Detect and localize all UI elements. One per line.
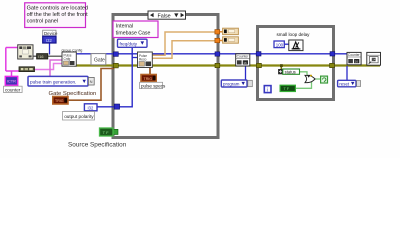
tunnel blue loop left — [256, 52, 261, 56]
wire brown gate spec — [68, 69, 115, 101]
wire blue output polarity run — [97, 48, 132, 107]
wire olive tap to unbundle — [280, 66, 282, 70]
label output polarity — [63, 112, 95, 121]
svg-text:TRIG: TRIG — [144, 77, 153, 81]
indicator tan box A — [223, 28, 239, 34]
wire orange B — [152, 41, 217, 58]
svg-text:T F: T F — [103, 130, 109, 135]
ring constant freq/duty — [118, 39, 148, 47]
vi icon wait ms (metronome) — [289, 40, 303, 51]
svg-text:freq/duty: freq/duty — [120, 41, 138, 46]
svg-text:Internal: Internal — [116, 24, 133, 30]
icon counter config (left DAQ icon) — [18, 45, 33, 59]
tunnel olive loop right — [330, 63, 335, 67]
tunnel blue case left lower — [114, 104, 119, 109]
svg-text:Gate: Gate — [94, 57, 105, 63]
constant Gate string — [91, 54, 106, 65]
svg-text:output polarity: output polarity — [64, 114, 94, 119]
node group config — [62, 48, 83, 66]
label pulse specs — [140, 82, 166, 88]
label counter — [4, 86, 23, 92]
boolean constant TF (case left bottom) — [100, 128, 114, 136]
ring constant program — [221, 80, 252, 87]
vi icon Counter 1 — [236, 54, 250, 66]
constant 100 — [274, 41, 284, 48]
svg-text:reset: reset — [339, 82, 350, 87]
wire magenta drop to ICTR — [11, 71, 13, 77]
svg-text:counter: counter — [5, 87, 21, 92]
tunnel orange case right A — [215, 30, 220, 34]
wire green status to or — [300, 72, 308, 76]
svg-text:small loop delay: small loop delay — [277, 32, 311, 37]
svg-text:T F: T F — [284, 87, 290, 91]
comment internal timebase case — [113, 21, 158, 38]
svg-text:Reso: Reso — [139, 57, 147, 61]
junction dot on olive wire — [280, 64, 283, 67]
wire blue program drop — [245, 66, 247, 80]
svg-text:ICTR: ICTR — [7, 79, 16, 84]
tunnel blue case left — [113, 52, 118, 57]
constant ticks (brown, inside case) — [141, 75, 156, 82]
icon gated counter (wide) — [19, 67, 35, 72]
svg-text:status: status — [285, 69, 296, 74]
svg-text:I16: I16 — [38, 55, 43, 59]
wire orange A — [152, 32, 217, 55]
wire blue main horizontal — [74, 53, 349, 55]
terminal output polarity I32 — [84, 104, 97, 111]
svg-text:16: 16 — [355, 60, 359, 64]
svg-text:Source Specification: Source Specification — [68, 142, 127, 149]
wire pink ring to node — [50, 60, 62, 76]
wire brown prop node to ticks const — [149, 67, 151, 76]
tunnel green case left bottom — [113, 129, 118, 134]
wire magenta top elbow — [6, 47, 18, 49]
tunnel blue case right — [215, 52, 220, 56]
svg-text:Counter: Counter — [237, 54, 250, 58]
ring constant reset — [338, 80, 361, 87]
while loop border (inner) — [258, 27, 334, 100]
comment note box top-left — [25, 3, 88, 28]
case selector label False — [148, 11, 186, 19]
unbundle arrow box — [278, 69, 283, 74]
svg-text:I32: I32 — [88, 105, 94, 110]
vi icon counter control — [367, 52, 381, 65]
terminal Device I32 — [43, 36, 56, 43]
or gate — [305, 75, 315, 83]
boolean constant TF (inside loop) — [280, 85, 295, 91]
wire orange stubs to tan boxes — [219, 31, 224, 33]
tunnel olive case right — [215, 63, 220, 67]
wire blue 100 to wait — [284, 43, 289, 45]
wire green TF to or — [295, 82, 311, 89]
wire magenta vertical left — [5, 48, 7, 72]
ring constant pulse train generation — [28, 76, 94, 86]
wire blue reset drop — [346, 66, 348, 81]
wire olive main horizontal — [74, 64, 380, 66]
terminal ICTR counter (pink) — [5, 76, 17, 85]
svg-text:Device: Device — [44, 31, 58, 36]
loop condition terminal — [321, 76, 328, 83]
svg-text:pulse train generation.: pulse train generation. — [30, 79, 76, 84]
svg-text:I32: I32 — [46, 38, 52, 43]
wire dark i16 stub — [33, 55, 62, 57]
svg-text:Counter: Counter — [348, 53, 361, 57]
label Device — [43, 30, 58, 36]
property node pulse resolution — [138, 52, 153, 68]
svg-text:False: False — [158, 13, 171, 19]
wire green or to loop cond — [316, 78, 321, 80]
svg-text:pulse specs: pulse specs — [141, 83, 166, 88]
svg-text:i: i — [267, 87, 268, 93]
svg-text:timebase Case: timebase Case — [116, 30, 151, 36]
svg-text:program: program — [223, 82, 240, 87]
svg-text:16: 16 — [243, 61, 247, 65]
case structure border (outer) — [113, 15, 218, 138]
tunnel olive case left — [113, 63, 118, 68]
svg-text:Cnfg: Cnfg — [64, 57, 71, 61]
svg-text:N: N — [90, 79, 93, 84]
wire blue stub to prop node — [132, 57, 138, 59]
svg-text:TRIG: TRIG — [55, 99, 64, 103]
vi icon Counter 2 — [347, 52, 361, 64]
svg-text:54: 54 — [372, 58, 376, 62]
svg-text:off the the left of the front: off the the left of the front — [27, 12, 89, 18]
wire pink icon2 to node — [35, 64, 63, 70]
wire blue device drop — [49, 43, 51, 55]
tunnel orange case right B — [215, 38, 220, 42]
tunnel blue loop right — [330, 52, 335, 56]
svg-text:control panel: control panel — [27, 19, 58, 25]
unbundle field status — [283, 69, 300, 74]
tunnel olive loop left — [257, 63, 262, 67]
indicator tan box B — [223, 37, 239, 43]
wire magenta bottom elbow — [6, 70, 20, 72]
icon I16 converter — [37, 54, 48, 59]
constant gate spec (brown) — [53, 97, 68, 105]
svg-text:Gate controls are located: Gate controls are located — [27, 6, 88, 12]
iteration terminal i — [264, 86, 271, 94]
svg-text:100: 100 — [276, 42, 284, 47]
